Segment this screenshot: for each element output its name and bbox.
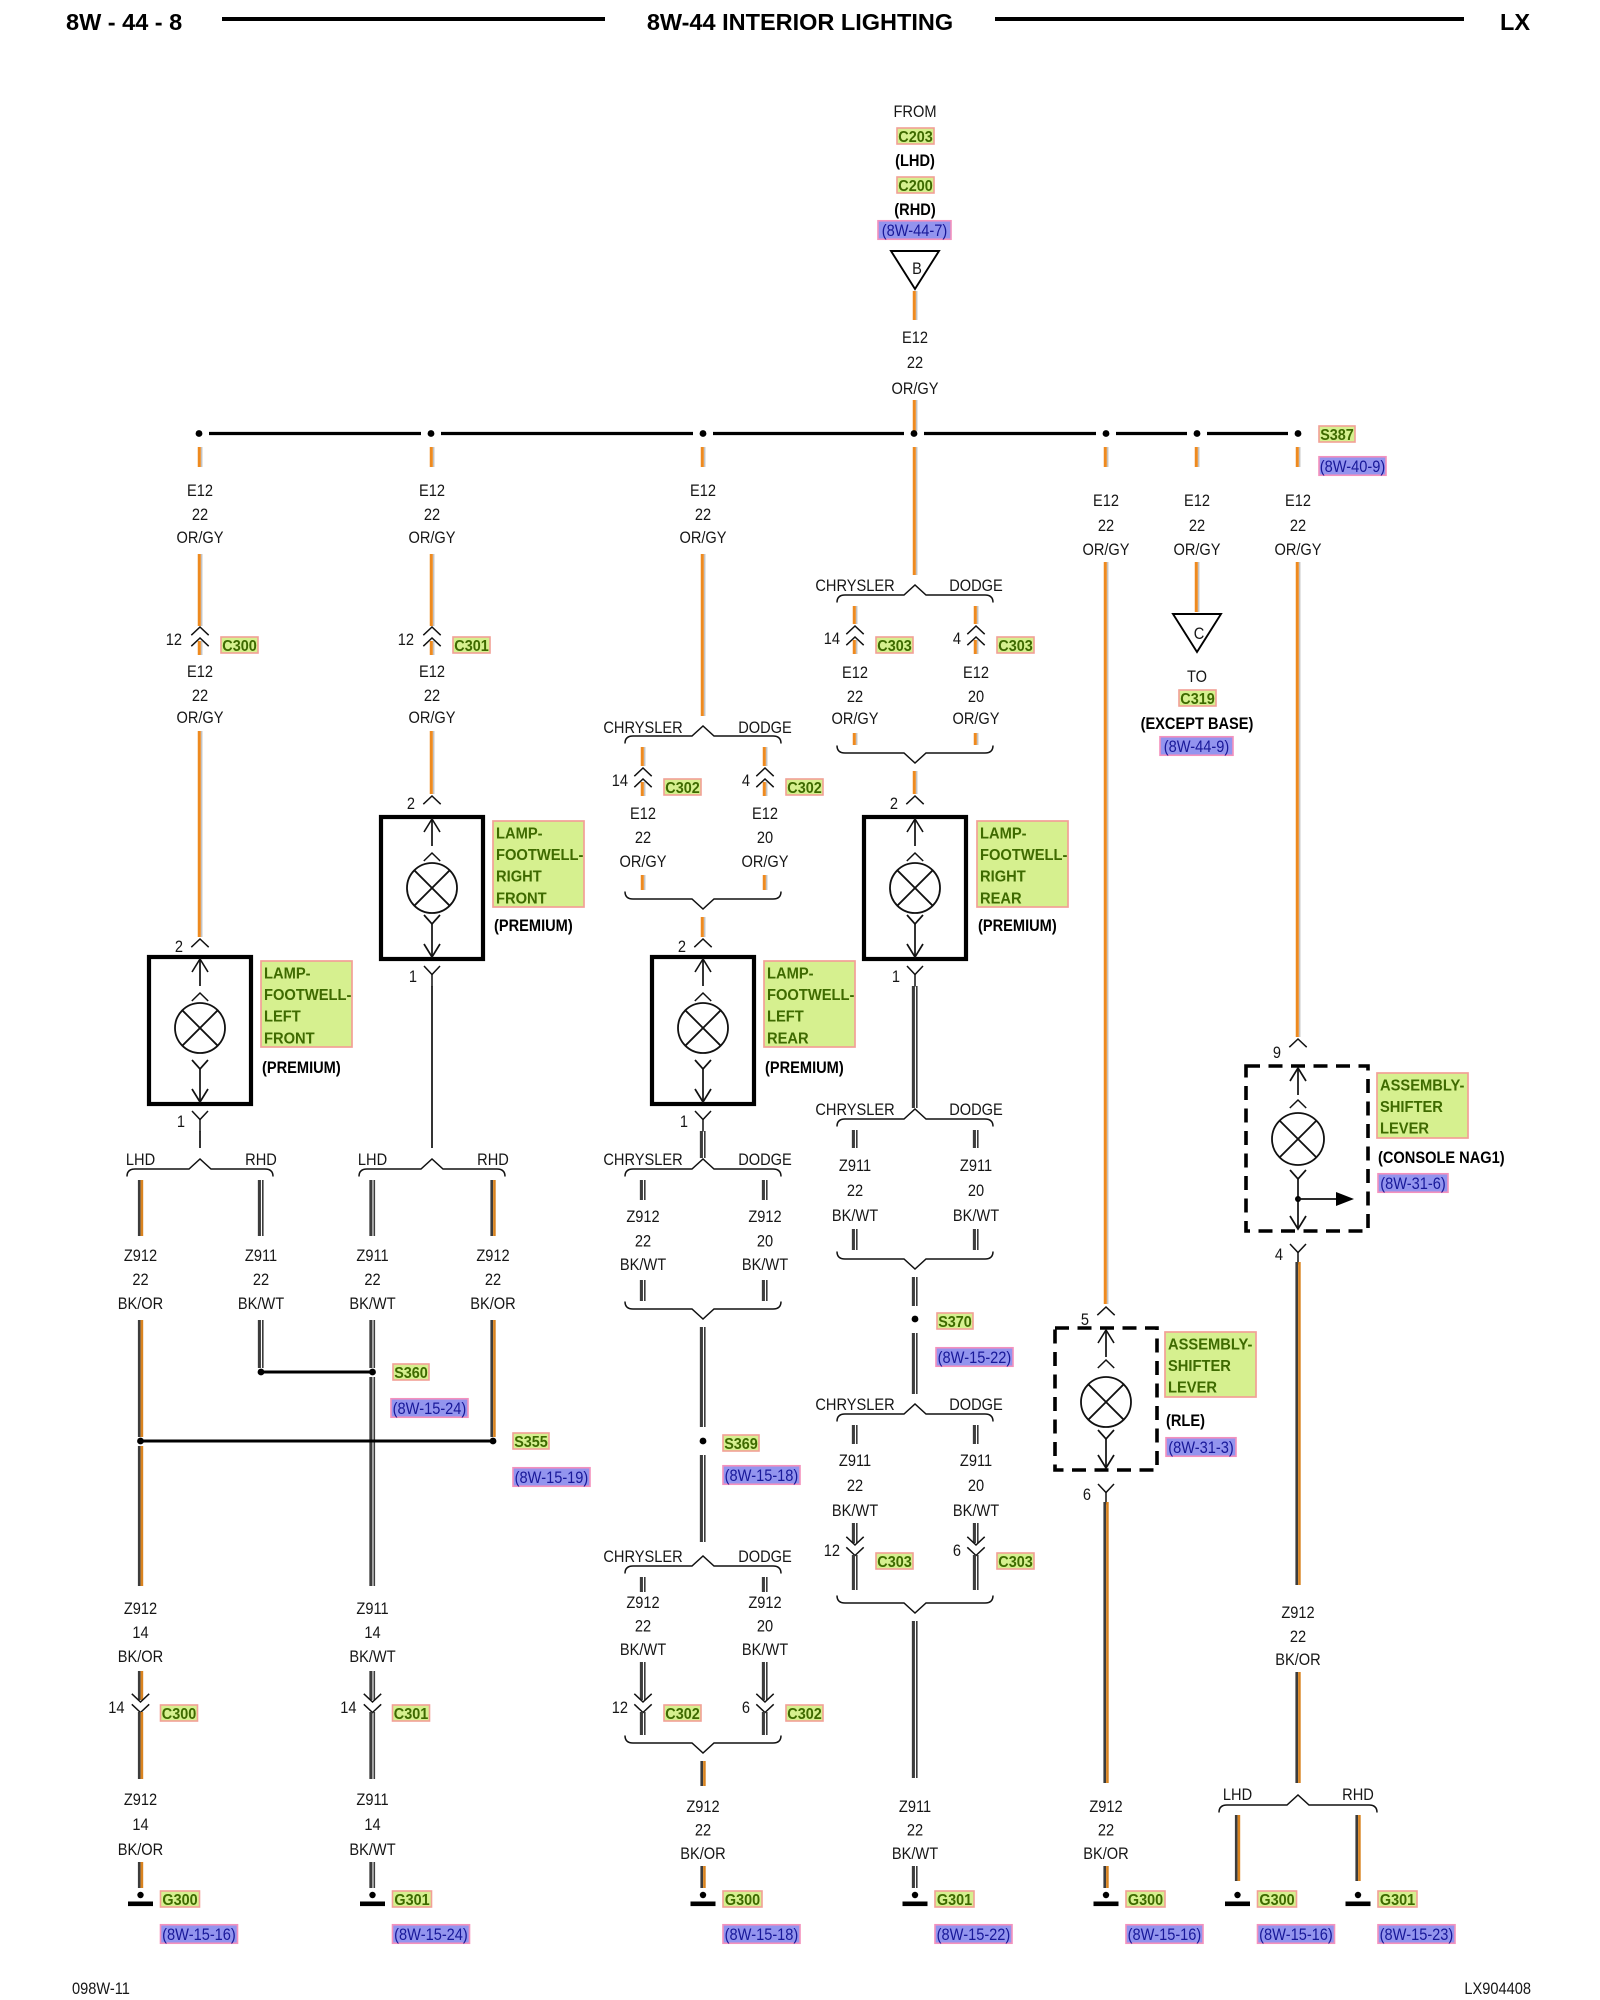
svg-text:22: 22 [695,506,711,524]
wire through C302 chrysler bottom [641,1712,644,1735]
reference (8W-15-22) for S370 [936,1348,1013,1368]
splice S360 node right [369,1369,376,1376]
svg-text:BK/WT: BK/WT [832,1502,879,1520]
wire Z912 LHD branch stub [139,1180,142,1236]
svg-text:LAMP-: LAMP- [767,965,814,983]
svg-text:22: 22 [907,1822,923,1840]
svg-text:14: 14 [340,1699,356,1717]
svg-text:BK/WT: BK/WT [892,1845,939,1863]
wire label Z911 22 BK/WT col2 [349,1247,396,1313]
wire Z911 chrysler stub lower col4 [853,1425,856,1444]
wire E12 col5 stub below bus [1105,447,1107,467]
svg-text:6: 6 [1083,1486,1091,1504]
brace merge col3 mid [625,1302,781,1320]
wire label E12 20 OR/GY dodge [741,805,788,871]
wire Z912 LHD to splice S355 [139,1320,142,1437]
svg-text:E12: E12 [902,329,928,347]
svg-text:4: 4 [953,630,961,648]
svg-text:14: 14 [132,1624,148,1642]
wire through C303 dodge bottom [974,1555,977,1590]
wire through C303 chrysler [854,640,856,654]
svg-text:OR/GY: OR/GY [176,709,223,727]
brace merge col3 bottom [625,1736,781,1754]
svg-text:Z911: Z911 [839,1452,871,1470]
wire E12 col2 to connector C301 [431,554,433,626]
wire dodge mid col4 to merge [974,1229,977,1250]
svg-text:Z912: Z912 [1281,1604,1314,1622]
pin 5 chevron shifter lever RLE [1097,1307,1114,1315]
svg-text:(RLE): (RLE) [1166,1412,1205,1430]
svg-text:G301: G301 [1380,1891,1416,1909]
svg-text:14: 14 [132,1816,148,1834]
wire E12 col3 to brand split [702,554,704,716]
svg-text:G300: G300 [1128,1891,1163,1909]
wire label Z912 14 BK/OR [118,1600,163,1666]
lamp footwell-left-rear symbol [652,957,754,1104]
svg-text:LEVER: LEVER [1380,1120,1429,1138]
svg-text:CHRYSLER: CHRYSLER [603,1151,682,1169]
wire Z911 RHD branch stub [259,1180,262,1236]
brace merge col3 upper [625,892,781,910]
bus junction node 5 [1103,430,1110,437]
lamp footwell-right-rear label [977,821,1068,907]
svg-text:22: 22 [192,506,208,524]
reference (8W-15-24) for G301 col2 [393,1925,470,1945]
svg-text:22: 22 [635,829,651,847]
wire E12 col6 stub below bus [1196,447,1198,467]
svg-text:(8W-15-22): (8W-15-22) [938,1349,1012,1367]
assembly-shifter-lever NAG1 symbol [1246,1066,1368,1231]
wire E12 col2 to lamp [431,731,433,794]
wire label E12 22 OR/GY chrysler [619,805,666,871]
svg-text:E12: E12 [1285,492,1311,510]
wire through bottom C301 [371,1712,374,1779]
svg-text:CHRYSLER: CHRYSLER [603,719,682,737]
bus junction node 6 [1194,430,1201,437]
pin 1 connector of lamp col2 [424,966,440,987]
svg-text:RHD: RHD [477,1151,509,1169]
splice S369 label [723,1435,759,1453]
wire Z912 col5 to ground [1105,1502,1108,1783]
svg-text:22: 22 [253,1271,269,1289]
svg-text:DODGE: DODGE [949,1396,1003,1414]
svg-text:BK/WT: BK/WT [238,1295,285,1313]
svg-text:22: 22 [424,506,440,524]
svg-text:BK/OR: BK/OR [1083,1845,1128,1863]
brace CHRYSLER/DODGE split col3 mid [625,1159,781,1177]
wire label E12 22 OR/GY col2 lower [408,663,455,727]
wire label E12 22 OR/GY col5 [1082,492,1129,559]
svg-text:OR/GY: OR/GY [176,529,223,547]
wire Z912 RHD branch col7 [1357,1815,1360,1881]
ground G300 symbol col1 [128,1892,153,1906]
wire E12 dodge branch stub [764,747,766,766]
svg-text:C303: C303 [877,637,911,655]
wire Z912 col3 bottom stub [702,1761,705,1786]
svg-text:FROM: FROM [893,103,936,121]
svg-text:C303: C303 [998,1553,1032,1571]
brace CHRYSLER/DODGE split col4 mid [837,1109,993,1127]
wire label Z912 14 BK/OR lower [118,1791,163,1859]
svg-text:DODGE: DODGE [738,1548,792,1566]
lamp footwell-right-front symbol [381,817,483,959]
wire Z911 to ground G301 [371,1862,374,1888]
svg-text:FRONT: FRONT [264,1030,315,1048]
ground G301 label col2 [393,1891,432,1909]
wire label E12 22 OR/GY chrysler col4 [831,664,878,728]
connector C303 chrysler bottom label [876,1553,913,1571]
wire E12 col4 to lamp [914,771,916,794]
svg-text:6: 6 [742,1699,750,1717]
svg-text:E12: E12 [752,805,778,823]
brace CHRYSLER/DODGE split col3 upper [625,726,781,744]
connector C200 label [897,177,934,195]
svg-text:2: 2 [407,795,415,813]
pin 1 connector col3 [695,1111,711,1132]
connector C302 chrysler bottom pass-through [634,1694,651,1713]
svg-text:SHIFTER: SHIFTER [1168,1358,1231,1376]
brace LHD/RHD split col7 [1219,1795,1377,1813]
svg-text:(8W-15-24): (8W-15-24) [394,1926,468,1944]
connector C300 bottom pass-through [132,1694,149,1713]
svg-text:C: C [1194,625,1205,643]
wire E12 from triangle B [914,291,916,320]
ground G301 label col7 RHD [1378,1891,1417,1909]
reference (8W-31-3) [1166,1438,1236,1458]
svg-text:1: 1 [892,968,900,986]
svg-text:REAR: REAR [980,890,1022,908]
svg-text:RIGHT: RIGHT [980,868,1026,886]
svg-text:Z912: Z912 [748,1594,781,1612]
svg-text:C300: C300 [162,1705,196,1723]
wire Z912 col7 run [1297,1262,1300,1585]
ground G301 symbol col4 [903,1892,928,1906]
wire E12 col4 to brand split [914,447,916,575]
svg-text:C302: C302 [787,779,821,797]
svg-text:22: 22 [907,354,923,372]
svg-text:(PREMIUM): (PREMIUM) [262,1059,341,1077]
svg-text:8W-44 INTERIOR LIGHTING: 8W-44 INTERIOR LIGHTING [647,9,953,35]
splice S360 tie line [261,1371,373,1374]
svg-text:22: 22 [1189,517,1205,535]
wire Z911 below S360 [371,1377,374,1586]
svg-text:OR/GY: OR/GY [741,853,788,871]
wire Z912 chrysler stub mid [641,1180,644,1200]
bus junction node 3 [700,430,707,437]
wire E12 col1 stub below bus [199,447,201,467]
svg-text:Z911: Z911 [356,1791,388,1809]
wire Z911 14 to connector C301 [371,1671,374,1700]
ground G300 label col5 [1126,1891,1165,1909]
reference (8W-15-16) for G300 col7 [1258,1925,1335,1945]
connector C301 label [453,637,490,655]
svg-text:BK/OR: BK/OR [1275,1651,1320,1669]
svg-text:Z912: Z912 [626,1594,659,1612]
svg-text:20: 20 [757,829,773,847]
svg-text:OR/GY: OR/GY [1082,541,1129,559]
svg-text:20: 20 [968,1477,984,1495]
wire label Z911 22 BK/WT chrysler lower [832,1452,879,1520]
wire Z912 LHD branch col7 [1236,1815,1239,1881]
bus wire E12 horizontal [209,432,1288,435]
wire Z912 dodge stub lower [763,1577,766,1592]
connector C300 bottom label [161,1705,198,1723]
reference (8W-44-7) [878,221,951,241]
wire through C300 [199,641,201,655]
svg-text:C301: C301 [394,1705,429,1723]
svg-text:Z911: Z911 [356,1600,388,1618]
wire dodge to connector C302 bottom [763,1662,766,1700]
wire Z912 col7 to LHD/RHD split [1297,1672,1300,1783]
svg-text:RHD: RHD [1342,1786,1374,1804]
svg-text:OR/GY: OR/GY [952,710,999,728]
svg-text:G301: G301 [937,1891,973,1909]
svg-text:CHRYSLER: CHRYSLER [815,1396,894,1414]
wire Z912 col3 to brand split 2 [701,1131,704,1158]
connector C301 pass-through [423,627,440,646]
pin 2 chevron lamp right rear [906,796,923,804]
brace CHRYSLER/DODGE split col4 lower [837,1404,993,1422]
wire Z911 col4 below S370 [913,1333,916,1394]
wire Z912 RHD to splice S355 [492,1320,495,1437]
svg-text:9: 9 [1273,1044,1281,1062]
wire Z912 RHD branch stub col2 [492,1180,495,1236]
svg-text:LHD: LHD [1223,1786,1252,1804]
wire label Z911 14 BK/WT [349,1600,396,1666]
svg-text:(8W-15-24): (8W-15-24) [393,1400,467,1418]
svg-text:B: B [912,260,922,278]
svg-text:Z912: Z912 [748,1208,781,1226]
svg-text:C200: C200 [898,177,932,195]
svg-text:12: 12 [398,631,414,649]
reference (8W-31-6) [1378,1174,1448,1194]
wire Z911 chrysler stub mid col4 [853,1130,856,1148]
svg-text:22: 22 [132,1271,148,1289]
svg-text:14: 14 [824,630,840,648]
svg-text:Z912: Z912 [686,1798,719,1816]
svg-text:E12: E12 [630,805,656,823]
svg-text:CHRYSLER: CHRYSLER [815,577,894,595]
svg-text:E12: E12 [842,664,868,682]
wire through C301 [431,641,433,655]
wire Z912 below S355 [139,1446,142,1586]
connector C319 label [1179,690,1216,708]
svg-text:6: 6 [953,1542,961,1560]
svg-text:LAMP-: LAMP- [264,965,311,983]
pin 2 chevron lamp right front [423,796,440,804]
ground G300 label col1 [161,1891,200,1909]
svg-text:22: 22 [1098,1822,1114,1840]
connector C302 dodge bottom pass-through [756,1694,773,1713]
svg-text:C300: C300 [222,637,256,655]
svg-text:Z912: Z912 [124,1247,157,1265]
assembly-shifter-lever RLE symbol [1055,1328,1157,1470]
splice S369 node [700,1438,707,1445]
wire Z912 to ground G300 [139,1862,142,1888]
svg-text:S355: S355 [514,1433,548,1451]
connector C302 dodge bottom label [786,1705,823,1723]
svg-text:22: 22 [847,1182,863,1200]
wire label E12 22 OR/GY col2 [408,482,455,547]
svg-text:OR/GY: OR/GY [1173,541,1220,559]
brace merge col4 mid [837,1252,993,1270]
wire E12 into bus [914,400,916,431]
svg-text:1: 1 [177,1113,185,1131]
wire through C302 chrysler [642,782,644,796]
wire lamp col2 to LHD/RHD split [431,986,433,1148]
wire Z911 col4 to brand split 2 [913,986,916,1108]
wire dodge mid to merge [763,1280,766,1301]
bus junction node 4 [911,430,918,437]
svg-text:22: 22 [847,1477,863,1495]
svg-text:REAR: REAR [767,1030,809,1048]
svg-text:FOOTWELL-: FOOTWELL- [264,987,351,1005]
wire label Z911 22 BK/WT chrysler col4 [832,1157,879,1225]
svg-text:20: 20 [757,1618,773,1636]
svg-text:OR/GY: OR/GY [679,529,726,547]
wire label Z911 20 BK/WT dodge lower [953,1452,1000,1520]
svg-text:FOOTWELL-: FOOTWELL- [496,847,583,865]
svg-text:Z911: Z911 [960,1452,992,1470]
wire chrysler mid col4 to merge [853,1229,856,1250]
wire Z911 col4 to splice S370 [913,1277,916,1306]
svg-text:22: 22 [485,1271,501,1289]
svg-text:LX: LX [1500,9,1530,35]
svg-text:Z912: Z912 [124,1791,157,1809]
wire through C303 dodge [975,640,977,654]
connector C302 chrysler label [664,779,701,797]
svg-text:BK/OR: BK/OR [470,1295,515,1313]
ground G300 label col3 [723,1891,762,1909]
svg-text:12: 12 [612,1699,628,1717]
svg-text:14: 14 [364,1816,380,1834]
lamp footwell-left-front label [261,961,352,1047]
svg-text:DODGE: DODGE [738,1151,792,1169]
svg-text:BK/WT: BK/WT [349,1295,396,1313]
wire Z911 LHD to splice S360 [371,1320,374,1368]
svg-text:2: 2 [890,795,898,813]
connector C302 chrysler pass-through [634,768,651,787]
wire E12 col3 stub below bus [702,447,704,467]
svg-text:4: 4 [1275,1246,1283,1264]
reference (8W-15-16) for G300 col5 [1126,1925,1203,1945]
wire chrysler col4 to merge [854,733,856,745]
header rule right [995,17,1464,21]
svg-text:OR/GY: OR/GY [831,710,878,728]
svg-text:14: 14 [108,1699,124,1717]
ground G301 symbol col7 RHD [1346,1892,1371,1906]
svg-text:E12: E12 [419,663,445,681]
svg-text:(8W-15-16): (8W-15-16) [1259,1926,1333,1944]
svg-text:G300: G300 [162,1891,197,1909]
svg-text:G300: G300 [1259,1891,1294,1909]
svg-text:(PREMIUM): (PREMIUM) [978,917,1057,935]
svg-text:Z911: Z911 [839,1157,871,1175]
wire dodge col4 to merge [975,733,977,745]
svg-text:14: 14 [612,772,628,790]
splice S355 tie line [141,1440,494,1443]
svg-text:BK/WT: BK/WT [742,1641,789,1659]
assembly-shifter-lever NAG1 label [1377,1073,1468,1138]
connector C300 label [221,637,258,655]
svg-text:(8W-15-19): (8W-15-19) [515,1469,589,1487]
svg-text:RHD: RHD [245,1151,277,1169]
svg-text:FOOTWELL-: FOOTWELL- [980,847,1067,865]
bus junction node 2 [428,430,435,437]
wire Z912 chrysler stub lower [641,1577,644,1592]
ground G300 symbol col5 [1094,1892,1119,1906]
connector C301 bottom pass-through [364,1694,381,1713]
wire Z912 col3 below S369 [701,1455,704,1542]
svg-text:8W - 44 - 8: 8W - 44 - 8 [66,9,182,35]
svg-text:OR/GY: OR/GY [408,709,455,727]
svg-text:OR/GY: OR/GY [408,529,455,547]
wire E12 dodge branch stub col4 [975,606,977,624]
svg-text:(8W-44-7): (8W-44-7) [882,222,947,240]
svg-text:S387: S387 [1320,426,1354,444]
brace CHRYSLER/DODGE split col3 lower [625,1556,781,1574]
assembly-shifter-lever RLE label [1165,1332,1256,1397]
svg-text:C319: C319 [1180,690,1214,708]
svg-text:BK/WT: BK/WT [349,1841,396,1859]
off-page triangle B [891,251,939,289]
svg-text:Z912: Z912 [476,1247,509,1265]
svg-text:(PREMIUM): (PREMIUM) [494,917,573,935]
svg-text:Z911: Z911 [960,1157,992,1175]
wire Z912 col3 to splice S369 [701,1327,704,1427]
wire Z911 LHD branch stub col2 [371,1180,374,1236]
connector C303 chrysler bottom pass-through [846,1537,863,1556]
svg-text:ASSEMBLY-: ASSEMBLY- [1168,1336,1252,1354]
wire E12 col2 stub below bus [431,447,433,467]
wire E12 col6 to triangle C [1196,562,1198,612]
connector C303 chrysler label [876,637,913,655]
svg-text:E12: E12 [187,482,213,500]
svg-text:C303: C303 [998,637,1032,655]
wire label Z911 14 BK/WT lower [349,1791,396,1859]
ground G301 symbol col2 [360,1892,385,1906]
svg-text:LAMP-: LAMP- [496,825,543,843]
wire label E12 22 OR/GY feed [891,329,938,398]
wire label Z912 20 BK/WT dodge lower [742,1594,789,1659]
wire E12 col3 to lamp [702,917,704,937]
svg-text:LX904408: LX904408 [1464,1980,1531,1998]
svg-text:S369: S369 [724,1435,758,1453]
svg-text:BK/WT: BK/WT [349,1648,396,1666]
svg-text:(PREMIUM): (PREMIUM) [765,1059,844,1077]
lamp footwell-right-rear symbol [864,817,966,959]
svg-text:BK/OR: BK/OR [118,1648,163,1666]
svg-text:1: 1 [409,968,417,986]
wire label Z912 22 BK/WT chrysler [620,1208,667,1274]
wire lamp col1 to LHD/RHD split [199,1131,201,1148]
connector C303 dodge bottom pass-through [967,1537,984,1556]
pin 9 chevron shifter lever NAG1 [1289,1039,1306,1047]
reference (8W-15-18) for S369 [723,1466,800,1486]
reference (8W-15-23) for G301 col7 [1378,1925,1455,1945]
svg-text:ASSEMBLY-: ASSEMBLY- [1380,1077,1464,1095]
svg-text:22: 22 [424,687,440,705]
svg-text:DODGE: DODGE [949,1101,1003,1119]
wire Z912 col3 to ground G300 [702,1866,705,1888]
lamp footwell-right-front label [493,821,584,907]
svg-text:22: 22 [695,1822,711,1840]
lamp footwell-left-front symbol [149,957,251,1104]
svg-text:(8W-40-9): (8W-40-9) [1320,458,1385,476]
svg-text:DODGE: DODGE [738,719,792,737]
wire E12 col7 stub below bus [1297,447,1299,467]
wire Z912 col5 ground stub [1105,1866,1108,1888]
